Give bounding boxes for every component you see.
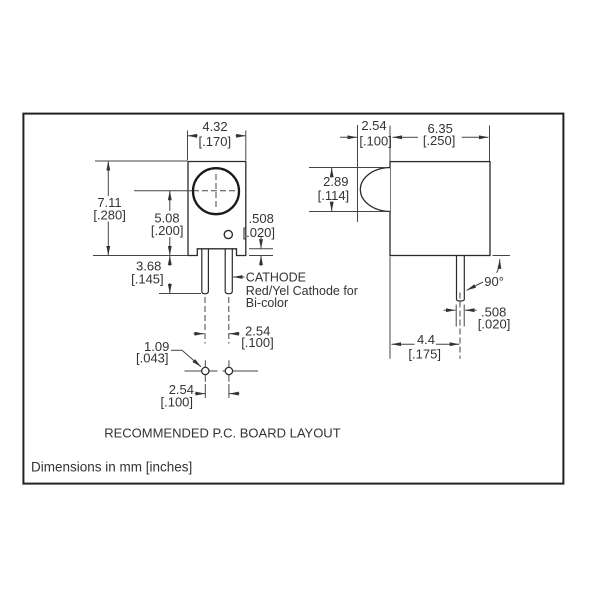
svg-text:[.145]: [.145] <box>131 272 164 287</box>
dimension 2.89 [.114] dome diameter <box>309 168 387 212</box>
pad hole 2 with crosshair <box>223 360 259 381</box>
dimension .508 [.020] standoff height (front) <box>243 211 276 266</box>
dimension 2.54 [.100] pad pitch (bottom) <box>161 382 240 410</box>
svg-text:RECOMMENDED P.C. BOARD LAYOUT: RECOMMENDED P.C. BOARD LAYOUT <box>104 426 341 441</box>
LED dome (side view) <box>360 168 390 212</box>
svg-text:[.100]: [.100] <box>241 335 274 350</box>
index hole <box>224 230 232 238</box>
svg-text:[.100]: [.100] <box>161 395 194 410</box>
lead 2 (front view, cathode) <box>225 249 232 294</box>
svg-text:90°: 90° <box>484 274 504 289</box>
svg-text:[.200]: [.200] <box>151 223 184 238</box>
lens centerline horizontal <box>134 190 237 192</box>
svg-text:[.043]: [.043] <box>136 351 169 366</box>
dimension 6.35 [.250] body depth <box>393 121 490 161</box>
svg-text:[.114]: [.114] <box>318 188 350 203</box>
lead 2 projection dashed line <box>228 297 230 344</box>
svg-text:.508: .508 <box>249 211 274 226</box>
LED holder body (side view) <box>390 162 490 256</box>
pad extension lines below <box>204 384 206 398</box>
svg-text:CATHODE: CATHODE <box>246 271 306 285</box>
lead 1 projection dashed line <box>204 297 206 344</box>
pad hole 1 with crosshair <box>185 360 218 381</box>
drawing border frame <box>23 114 563 484</box>
svg-text:4.4: 4.4 <box>417 332 435 347</box>
svg-text:[.280]: [.280] <box>93 208 126 223</box>
dimension 4.4 [.175] lead offset <box>390 257 459 362</box>
svg-text:[.175]: [.175] <box>408 346 441 361</box>
cathode leader arrow <box>233 271 358 310</box>
dimension 3.68 [.145] standoff to lead tip <box>131 256 201 294</box>
dimension 2.54 [.100] lead pitch (middle) <box>194 324 274 351</box>
dimension 7.11 [.280] overall height <box>93 161 188 256</box>
LED holder body (front view) <box>188 162 246 256</box>
dimension .508 [.020] lead thickness (side) <box>444 305 511 332</box>
dimension 4.32 [.170] body width <box>188 119 246 161</box>
svg-text:Bi-color: Bi-color <box>246 296 288 310</box>
svg-text:[.020]: [.020] <box>478 316 511 331</box>
svg-text:[.020]: [.020] <box>243 225 276 240</box>
svg-text:[.250]: [.250] <box>423 133 456 148</box>
lead 1 (front view) <box>202 249 209 294</box>
svg-text:Dimensions in mm [inches]: Dimensions in mm [inches] <box>31 459 192 474</box>
leader 1.09 [.043] pad diameter <box>136 339 201 367</box>
lead center dashed line (side) <box>459 293 461 359</box>
angle 90 degrees <box>467 256 510 291</box>
LED lens circle <box>193 168 239 214</box>
lead (side view) <box>457 256 465 302</box>
dimension 2.54 [.100] dome protrusion (top) <box>340 118 392 222</box>
svg-text:2.54: 2.54 <box>361 118 386 133</box>
svg-text:4.32: 4.32 <box>202 119 227 134</box>
lens centerline vertical <box>215 174 217 210</box>
svg-text:[.100]: [.100] <box>359 133 392 148</box>
dimension 5.08 [.200] lens center height <box>151 191 184 256</box>
svg-text:[.170]: [.170] <box>199 134 232 149</box>
